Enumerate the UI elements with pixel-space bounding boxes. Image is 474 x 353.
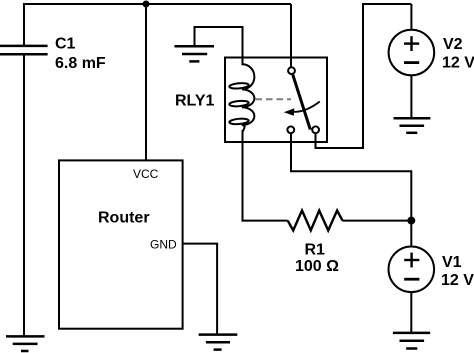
svg-text:VCC: VCC: [133, 167, 159, 181]
svg-text:100 Ω: 100 Ω: [295, 258, 339, 275]
svg-text:R1: R1: [305, 242, 326, 259]
svg-text:GND: GND: [150, 237, 177, 251]
svg-text:V2: V2: [443, 36, 463, 53]
svg-text:Router: Router: [98, 210, 150, 227]
svg-text:RLY1: RLY1: [175, 93, 215, 110]
svg-text:V1: V1: [442, 254, 462, 271]
svg-text:C1: C1: [55, 36, 76, 53]
svg-text:6.8 mF: 6.8 mF: [55, 55, 106, 72]
svg-text:12 V: 12 V: [442, 54, 474, 71]
svg-text:12 V: 12 V: [441, 272, 474, 289]
